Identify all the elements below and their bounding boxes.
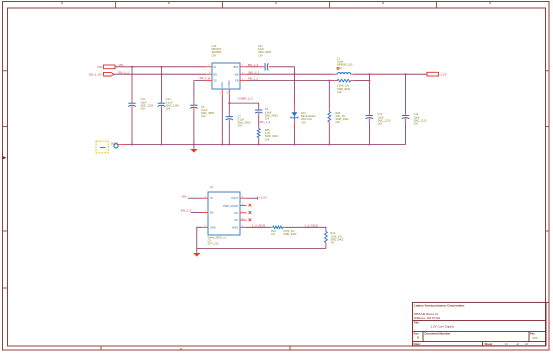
svg-text:PWR_GOOD: PWR_GOOD	[223, 205, 238, 208]
port 1.2V	[427, 72, 447, 76]
svg-text:Document Number: Document Number	[425, 332, 452, 336]
resistor R13	[325, 231, 345, 244]
pin stub U3.NC2 with no-connect X	[240, 219, 251, 222]
wire SS to C9	[194, 81, 206, 145]
capacitor C7	[226, 113, 252, 128]
net label COMP_1_2	[238, 96, 253, 100]
svg-text:13: 13	[505, 342, 509, 346]
capacitor C9	[190, 102, 214, 119]
pin stub U16.SS	[206, 80, 213, 82]
svg-text:NC: NC	[234, 212, 238, 215]
net label EN_1_2 lower	[181, 209, 192, 213]
svg-text:BS_1_2: BS_1_2	[248, 63, 259, 67]
svg-text:SS_1_2: SS_1_2	[200, 76, 211, 80]
junction dots top circuit	[131, 66, 407, 146]
wire R13 to bus	[325, 229, 327, 246]
svg-text:000: 000	[533, 336, 538, 340]
node DGND power symbol	[111, 143, 126, 148]
wire ADJ to R16	[247, 226, 271, 228]
svg-text:CHI: CHI	[141, 107, 146, 111]
svg-text:1_2_ADJ2: 1_2_ADJ2	[305, 223, 319, 227]
svg-text:EN_1_0V: EN_1_0V	[89, 72, 101, 76]
capacitor C12	[258, 44, 272, 71]
svg-text:VOUT: VOUT	[231, 197, 238, 200]
svg-text:1.2V Core Supply: 1.2V Core Supply	[431, 325, 455, 329]
svg-text:GND: GND	[210, 226, 216, 229]
svg-text:Sheet: Sheet	[485, 342, 493, 346]
svg-text:Lattice Semiconductor Corporat: Lattice Semiconductor Corporation	[414, 304, 465, 308]
wire COMP to RC branch	[229, 103, 258, 107]
wire BST to SW drop	[272, 67, 295, 74]
pin stub U16.SW	[240, 73, 247, 75]
svg-text:EN: EN	[210, 212, 214, 215]
capacitor C8	[255, 107, 278, 120]
pin stub U16.GND down	[221, 89, 223, 96]
svg-text:GND: GND	[221, 82, 224, 88]
svg-text:Date:: Date:	[414, 342, 421, 346]
pin stub U3.PG with no-connect X	[240, 204, 251, 207]
svg-text:SW: SW	[234, 73, 239, 76]
net label EN_1_2	[119, 70, 130, 74]
net label SW_1_2	[248, 70, 259, 74]
port VIN	[97, 65, 115, 69]
svg-text:FB_1_2: FB_1_2	[248, 77, 259, 81]
svg-text:EN_1_2: EN_1_2	[181, 209, 192, 213]
wire COMP branch	[228, 96, 230, 145]
border zone ticks right	[546, 71, 550, 303]
svg-text:CHI: CHI	[414, 122, 419, 126]
svg-text:COMP: COMP	[228, 80, 231, 88]
svg-text:COMP_1_2: COMP_1_2	[238, 96, 253, 100]
ground	[190, 145, 197, 153]
pin stub U3.VADJ	[240, 226, 247, 228]
net label 1_2_ADJ2	[305, 223, 319, 227]
svg-text:CH: CH	[331, 241, 335, 245]
wire RC segment	[258, 117, 260, 145]
border zone ticks bottom	[101, 346, 290, 350]
svg-text:VADJ: VADJ	[232, 226, 239, 229]
resistor R64	[334, 79, 354, 94]
inductor L2	[333, 57, 355, 75]
svg-text:1.2V: 1.2V	[441, 72, 447, 76]
svg-text:20: 20	[525, 342, 529, 346]
pin stub U16.COMP down	[228, 89, 230, 96]
wire VIN to U3	[188, 197, 202, 199]
svg-text:1_2_ADJ1: 1_2_ADJ1	[252, 223, 266, 227]
power flag +1.2V	[258, 195, 267, 199]
capacitor C14	[402, 112, 427, 125]
svg-text:CHI: CHI	[238, 124, 243, 128]
wire BST left	[247, 66, 263, 68]
svg-text:CHI: CHI	[337, 90, 342, 94]
svg-text:Title: Title	[414, 321, 420, 325]
wire C10 branch	[160, 67, 162, 145]
svg-text:CHI: CHI	[258, 53, 263, 57]
wire EN to U3	[191, 212, 202, 214]
svg-text:BST: BST	[234, 66, 239, 69]
svg-text:of: of	[517, 342, 520, 346]
svg-text:CHI: CHI	[378, 122, 383, 126]
capacitor C10	[158, 97, 180, 110]
wire VOUT to power flag	[247, 197, 258, 199]
svg-text:SS: SS	[214, 80, 218, 83]
capacitor C13	[366, 112, 391, 125]
pin stub U3.EN	[202, 212, 209, 214]
wire C11 branch	[131, 67, 133, 145]
svg-text:U3: U3	[210, 185, 214, 189]
border zone ticks left	[3, 71, 8, 288]
svg-text:CHI: CHI	[166, 107, 171, 111]
svg-text:EN_1_2: EN_1_2	[119, 70, 130, 74]
port EN_1_0V	[89, 72, 114, 76]
net label BS_1_2	[248, 63, 259, 67]
svg-text:SMD_0402: SMD_0402	[284, 232, 298, 236]
svg-text:Rev: Rev	[530, 331, 535, 335]
resistor R66 branch wire	[328, 81, 330, 145]
svg-text:IN: IN	[214, 66, 217, 69]
border zone ticks top	[62, 2, 490, 9]
pin stub U3.GND	[202, 226, 209, 228]
svg-text:RC_1_2: RC_1_2	[260, 120, 271, 124]
svg-text:B: B	[417, 336, 419, 340]
net label 1_2_ADJ1	[252, 223, 266, 227]
wire GND branch	[221, 96, 223, 145]
note flag yellow box	[96, 141, 108, 153]
resistor R16	[271, 226, 297, 236]
op-amp U3 LDO body	[205, 185, 244, 246]
pin stub U3.VOUT	[240, 197, 247, 199]
pin stub U3.NC1 with no-connect X	[240, 211, 251, 214]
svg-text:CHI: CHI	[336, 120, 341, 124]
svg-text:Hillsboro, OR 97124: Hillsboro, OR 97124	[414, 316, 440, 320]
wire EN	[114, 73, 206, 75]
svg-text:CH: CH	[271, 232, 275, 236]
svg-text:FB: FB	[235, 80, 239, 83]
svg-text:VIN: VIN	[182, 194, 187, 198]
net label RC_1_2	[260, 120, 271, 124]
pin stub U16.IN	[206, 66, 213, 68]
svg-text:NC: NC	[234, 219, 238, 222]
wire FB line	[247, 80, 334, 82]
wire ground bus	[125, 144, 406, 146]
svg-text:VIN: VIN	[119, 63, 124, 67]
svg-text:VIN: VIN	[97, 65, 102, 69]
svg-text:SOT_223: SOT_223	[208, 242, 220, 246]
diode D13 branch wire	[293, 74, 295, 144]
net label VIN	[119, 63, 124, 67]
resistor R66	[328, 111, 349, 124]
svg-text:CHI: CHI	[265, 137, 270, 141]
svg-text:+1.2V: +1.2V	[259, 195, 267, 199]
title block text	[414, 304, 538, 346]
wire VIN rail	[115, 66, 206, 68]
ground lower	[193, 249, 200, 257]
wire inductor to output port	[355, 73, 428, 75]
op-amp U16 regulator body	[209, 44, 244, 95]
pin stub U16.EN	[206, 73, 213, 75]
wire C14 branch	[405, 74, 407, 144]
net label SS_1_2	[200, 76, 211, 80]
svg-text:CHI: CHI	[201, 114, 206, 118]
wire GND down to bus	[197, 227, 326, 248]
wire R16 to R13 corner	[286, 227, 326, 228]
pin stub U16.FB	[240, 80, 247, 82]
net label VIN lower	[182, 194, 187, 198]
net label FB_1_2	[248, 77, 259, 81]
svg-text:DGND: DGND	[111, 143, 119, 146]
svg-text:CHI: CHI	[337, 66, 342, 70]
svg-text:IN: IN	[210, 197, 213, 200]
capacitor C11	[128, 97, 154, 110]
wire FB resistor to VOUT node	[354, 80, 370, 82]
resistor R65	[257, 128, 278, 141]
svg-text:CHI: CHI	[301, 120, 306, 124]
svg-text:SW_1_2: SW_1_2	[248, 70, 259, 74]
wire SW to inductor	[247, 73, 333, 75]
title block frame	[413, 302, 547, 345]
pin stub U16.BST	[240, 66, 247, 68]
diode D13	[291, 104, 316, 126]
svg-text:EN: EN	[214, 73, 218, 76]
svg-text:CHI: CHI	[212, 53, 217, 57]
wire VOUT node branch	[368, 74, 370, 144]
pin stub U3.IN	[202, 197, 209, 199]
